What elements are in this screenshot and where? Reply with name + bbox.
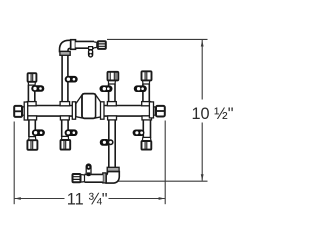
lower branch D1 valve neck bbox=[29, 137, 36, 140]
central union right hub bbox=[101, 102, 105, 119]
manifold right end fitting bbox=[156, 106, 165, 117]
lower branch D2 handle (pointing right) bbox=[65, 129, 78, 136]
lower branch D1 pipe bbox=[29, 117, 35, 137]
lower branch D2 tee collar bbox=[60, 116, 69, 120]
upper branch U3 tee collar bbox=[107, 102, 116, 106]
bottom valve handle (pointing up) bbox=[86, 164, 91, 176]
bottom elbow bbox=[106, 172, 119, 184]
bottom horizontal pipe bbox=[85, 174, 103, 182]
lower branch D4 valve neck bbox=[142, 137, 151, 140]
lower branch D4 tee collar bbox=[142, 116, 152, 120]
central union left nut (trapezoid) bbox=[76, 95, 82, 118]
central union right nut (trapezoid) bbox=[96, 95, 102, 118]
upper branch U1 valve cap bbox=[28, 73, 37, 82]
dimension extension line bottom (10 1/2 bottom) bbox=[118, 180, 208, 182]
manifold left hub band bbox=[24, 102, 28, 120]
manifold left end plug neck bbox=[22, 107, 24, 115]
upper branch U1 tee collar bbox=[27, 102, 36, 106]
bottom outlet neck bbox=[81, 175, 84, 183]
central union body bbox=[82, 94, 96, 119]
lower branch D4 pipe bbox=[143, 117, 150, 138]
arrow right bbox=[159, 197, 165, 200]
manifold right hub band bbox=[149, 102, 153, 118]
lower branch D4 handle (pointing left) bbox=[133, 130, 145, 137]
dimension extension line left (11 3/4 left) bbox=[13, 122, 15, 205]
upper branch U3 pipe bbox=[109, 84, 115, 105]
bottom drop pipe hub bbox=[107, 167, 119, 171]
dimension line vertical 10 1/2 bbox=[201, 40, 203, 181]
supply outlet fitting bbox=[98, 41, 106, 49]
upper branch U1 valve neck bbox=[28, 82, 35, 85]
upper branch U1 handle (pointing right) bbox=[31, 85, 44, 92]
bottom outlet fitting bbox=[73, 174, 81, 182]
supply elbow lower hub bbox=[60, 51, 70, 55]
upper branch U3 handle (pointing left) bbox=[100, 85, 113, 92]
lower branch D2 valve cap bbox=[61, 140, 71, 150]
supply elbow (top) bbox=[60, 40, 71, 51]
upper branch U4 pipe bbox=[143, 84, 149, 105]
riser pipe (supply drop from elbow) bbox=[62, 54, 68, 104]
arrow left bbox=[15, 197, 21, 200]
svg-text:11 ¾": 11 ¾" bbox=[67, 191, 108, 209]
lower branch D1 valve cap bbox=[27, 140, 37, 150]
central union left hub bbox=[72, 102, 75, 119]
lower branch D4 valve cap bbox=[142, 141, 152, 150]
lower branch D2 pipe bbox=[62, 117, 68, 137]
upper branch U3 valve cap bbox=[108, 72, 119, 81]
dimension extension line top (10 1/2 top) bbox=[107, 38, 208, 40]
lower branch D3 tee collar bbox=[108, 116, 117, 120]
manifold main pipe bbox=[24, 106, 150, 117]
upper branch U3 valve neck bbox=[108, 81, 115, 84]
arrow down bbox=[201, 174, 204, 180]
lower branch D1 handle (pointing right) bbox=[32, 129, 45, 136]
svg-text:10 ½": 10 ½" bbox=[192, 105, 234, 123]
riser tee collar bbox=[60, 102, 70, 106]
upper branch U4 valve cap bbox=[142, 71, 152, 80]
lower branch D3 drop pipe (to bottom elbow) bbox=[109, 117, 115, 168]
arrow up bbox=[201, 40, 204, 46]
upper branch U4 valve neck bbox=[143, 81, 150, 84]
lower branch D1 tee collar bbox=[28, 116, 37, 120]
supply outlet neck bbox=[94, 42, 97, 48]
upper branch U4 handle (pointing left) bbox=[134, 85, 147, 92]
supply top pipe bbox=[76, 41, 95, 48]
bottom pipe left hub bbox=[103, 173, 106, 183]
dimension line horizontal 11 3/4 bbox=[15, 198, 165, 200]
upper branch U1 pipe bbox=[28, 85, 34, 105]
dimension extension line right (11 3/4 right) bbox=[164, 121, 166, 205]
upper branch U4 tee collar bbox=[142, 102, 151, 106]
manifold right end neck bbox=[154, 107, 156, 115]
manifold left end plug bbox=[14, 106, 22, 117]
supply valve handle (pointing down) bbox=[88, 47, 93, 58]
supply elbow right coupling band bbox=[71, 40, 76, 50]
lower branch D3 handle (pointing left) bbox=[100, 139, 113, 146]
riser valve handle (pointing right) bbox=[65, 76, 78, 83]
lower branch D2 valve neck bbox=[62, 136, 69, 139]
